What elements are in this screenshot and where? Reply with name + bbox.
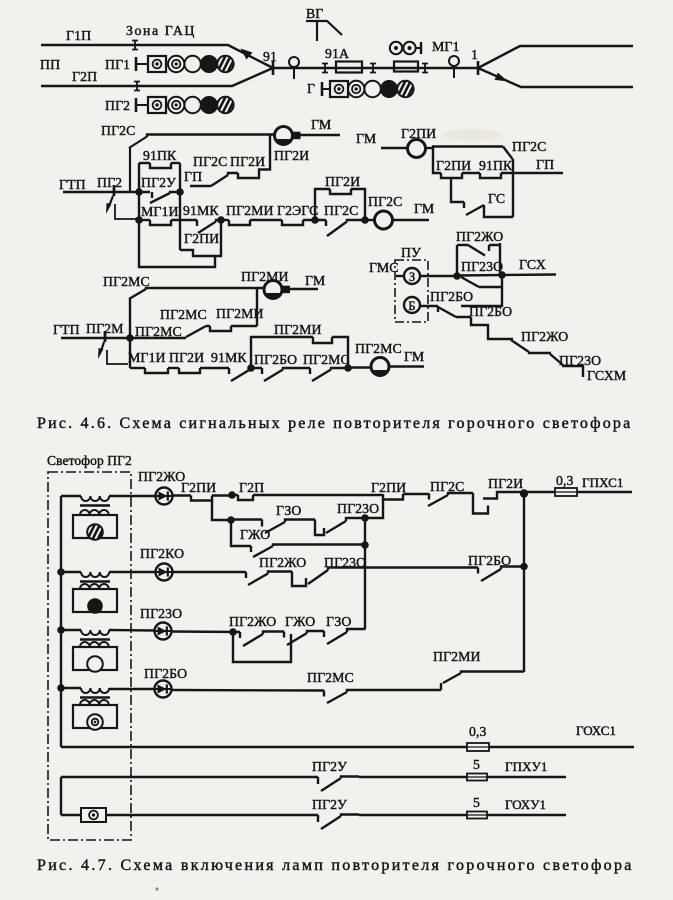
svg-text:ГМ: ГМ [305, 273, 325, 288]
wire row2 [109, 571, 156, 573]
vertical М to bottom row [129, 338, 131, 368]
main hump track line [273, 67, 478, 69]
wire link from ПГ2 arrow to lower bus [115, 204, 137, 219]
contact ПГ23О [292, 568, 478, 587]
contact ПГ2ЖО [246, 572, 292, 586]
lamp unit green [73, 647, 117, 670]
signal ПГ1 base box [148, 56, 166, 72]
signal mast 91 [289, 57, 299, 67]
svg-text:ГМ: ГМ [356, 131, 376, 146]
svg-text:ГПХУ1: ГПХУ1 [505, 759, 548, 774]
wire relay ПГ2МС to ГМ [390, 365, 425, 367]
contact ПГ2БО [251, 368, 305, 381]
contact ПГ2ЖО [240, 632, 284, 647]
lamp unit yellow [73, 515, 117, 538]
wire link ПГ2М to bottom row [107, 350, 128, 364]
svg-text:ПУ: ПУ [401, 245, 421, 260]
track line 1 (upper approach) [41, 45, 273, 68]
contact ПГ2У [318, 777, 359, 792]
bypass loop wire [139, 220, 215, 267]
wire [173, 494, 192, 496]
relay Г2ПИ [408, 140, 426, 158]
riser and contact ПГ2МС [129, 289, 146, 338]
contact ПГ2МС [305, 368, 348, 381]
svg-text:ВГ: ВГ [306, 6, 323, 21]
svg-text:ПГ23О: ПГ23О [461, 259, 503, 274]
node [520, 563, 528, 571]
svg-text:ПГ2И: ПГ2И [325, 174, 360, 189]
relay ПГ2МС [371, 358, 389, 376]
wire [172, 689, 325, 692]
branch Г2ПИ [180, 220, 221, 256]
insulated joint on line 1 [132, 41, 138, 50]
left link [60, 777, 62, 815]
wire row3 [109, 629, 155, 632]
button Б [404, 297, 420, 313]
svg-text:ГМ: ГМ [414, 201, 434, 216]
box right leg [179, 163, 181, 250]
svg-text:ГОХС1: ГОХС1 [576, 723, 616, 738]
svg-text:5: 5 [473, 795, 480, 810]
junction bar 91 [272, 61, 275, 75]
signal Г base box [330, 81, 348, 97]
return wire to ГОХС1 [61, 746, 467, 748]
upper М bus [146, 288, 263, 289]
contact ПГ2И [179, 368, 200, 373]
wire ГТП feed [63, 191, 139, 193]
wire [359, 776, 467, 778]
contact 91МК [197, 220, 221, 233]
svg-text:ГЖО: ГЖО [285, 614, 315, 629]
signal Г head [348, 81, 364, 97]
contact ГЖО [284, 631, 324, 645]
svg-text:Г2ПИ: Г2ПИ [181, 480, 216, 495]
wire to relay ПГ2С [365, 219, 374, 221]
svg-text:ПГ2С: ПГ2С [430, 479, 464, 494]
svg-text:ГП: ГП [184, 169, 202, 184]
svg-text:ПГ2МС: ПГ2МС [303, 352, 350, 367]
track section box 2 [394, 62, 418, 72]
svg-text:Г2ПИ: Г2ПИ [436, 158, 471, 173]
rung ПГ2ЖО [457, 245, 500, 256]
svg-text:ПГ2ЖО: ПГ2ЖО [521, 329, 568, 344]
contact ПГ2БО [438, 306, 471, 317]
svg-text:1: 1 [471, 47, 478, 62]
svg-text:ПГ2БО: ПГ2БО [469, 304, 512, 319]
lamp box on ГОХУ1 row [81, 808, 106, 822]
svg-text:Г2ЭГС: Г2ЭГС [277, 203, 318, 218]
svg-text:ПГ2И: ПГ2И [230, 154, 265, 169]
svg-text:ПГ2КО: ПГ2КО [140, 546, 184, 561]
branch ГЖО [231, 520, 365, 557]
signal ПГ2 head [168, 97, 184, 113]
insulated joint [370, 64, 376, 73]
dash-dot box ПУ [395, 260, 428, 322]
contact ПГ2МИ row B [210, 326, 231, 331]
svg-text:ПГ2: ПГ2 [105, 98, 130, 113]
node [453, 272, 461, 280]
svg-text:ГЖО: ГЖО [240, 527, 270, 542]
svg-text:ПГ2БО: ПГ2БО [254, 352, 297, 367]
wire [173, 571, 247, 573]
contact МГ1И [139, 219, 150, 221]
wire ГМ to relay Г2ПИ [381, 147, 408, 149]
junction bar 1 [477, 61, 480, 75]
wire relay ПГ2МИ to ГМ [287, 288, 319, 290]
lamp unit red [73, 589, 117, 612]
contact ПГ2С riser [129, 148, 131, 192]
node left of box [311, 216, 319, 224]
svg-text:ПГ2С: ПГ2С [101, 123, 135, 138]
wire ГОХС1 [489, 746, 634, 748]
signal ПГ1 head [168, 56, 184, 72]
contact ПГ2МС [324, 690, 441, 703]
svg-text:ПГ2ЖО: ПГ2ЖО [259, 555, 306, 570]
svg-text:ПГ2БО: ПГ2БО [144, 666, 187, 681]
fuse 0,3 [555, 488, 577, 496]
contact Г2ПИ right [383, 494, 403, 500]
svg-text:ПГ2ЖО: ПГ2ЖО [456, 229, 503, 244]
arrow on lower diverging track [495, 73, 508, 82]
scan speck [155, 887, 158, 890]
contact ПГ2У [139, 192, 180, 203]
parallel box left leg [456, 245, 458, 276]
svg-text:ПГ2МИ: ПГ2МИ [226, 203, 274, 218]
wire row3 [61, 629, 81, 631]
svg-text:ПП: ПП [40, 57, 60, 72]
svg-text:ПГ2МС: ПГ2МС [103, 274, 150, 289]
middle branch [433, 148, 441, 173]
svg-text:ГМС: ГМС [369, 260, 399, 275]
bus node row3 [57, 626, 65, 634]
wire row4 [109, 688, 155, 690]
svg-text:ГМ: ГМ [311, 117, 331, 132]
wire to relay ПГ2МС [348, 366, 371, 368]
contact ПГ23О [315, 518, 365, 535]
wire relay ПГ2И to ГМ [297, 134, 340, 136]
svg-text:ПГ23О: ПГ23О [559, 353, 601, 368]
wire ГМС to button З [396, 275, 404, 277]
fuse 5 [467, 812, 487, 819]
wire relay ПГ2С to ГМ [393, 219, 430, 221]
svg-text:ГОХУ1: ГОХУ1 [505, 797, 546, 812]
vertical to lower bus [138, 192, 140, 220]
wire row1 [109, 495, 156, 497]
svg-text:ГЗО: ГЗО [326, 614, 352, 629]
МГ1 mast bar [416, 47, 421, 49]
contact ПГ2С on bus [326, 220, 365, 236]
svg-text:Г2ПИ: Г2ПИ [371, 480, 406, 495]
svg-text:ГТП: ГТП [59, 177, 86, 192]
node М [126, 334, 134, 342]
svg-text:Г2П: Г2П [239, 480, 264, 495]
svg-text:МГ1И: МГ1И [141, 204, 179, 219]
relay ПГ2ЖО diode [156, 488, 173, 505]
svg-text:З: З [409, 270, 415, 284]
track line 2 (lower approach) [41, 68, 273, 86]
relay ПГ2С [375, 211, 393, 229]
transformer row1 [81, 496, 109, 501]
svg-text:Зона ГАЦ: Зона ГАЦ [126, 23, 196, 38]
svg-text:91А: 91А [325, 46, 349, 61]
diverging track lower [478, 68, 633, 87]
signal ВГ symbol [306, 21, 342, 41]
svg-text:ПГ2МС: ПГ2МС [355, 341, 402, 356]
node after ПГ2 [135, 188, 143, 196]
svg-text:Рис. 4.7. Схема включения ламп: Рис. 4.7. Схема включения ламп повторите… [37, 857, 634, 874]
signal ПГ1 mast [135, 57, 138, 71]
svg-text:ГСХ: ГСХ [519, 257, 546, 272]
wire [487, 814, 566, 816]
node [498, 271, 506, 279]
svg-text:ПГ2МС: ПГ2МС [135, 324, 182, 339]
wire to fuse [524, 491, 555, 493]
svg-text:91МК: 91МК [211, 350, 247, 365]
wire [231, 518, 262, 520]
node [228, 491, 236, 499]
svg-text:ПГ2ЖО: ПГ2ЖО [229, 614, 276, 629]
node right of box [361, 216, 369, 224]
svg-text:91ПК: 91ПК [479, 158, 513, 173]
wire row4 [61, 687, 81, 689]
signal ПГ2 base box [148, 97, 166, 113]
bus node row2 [57, 568, 65, 576]
svg-text:91ПК: 91ПК [143, 148, 177, 163]
svg-text:Г: Г [307, 81, 315, 96]
wire [487, 776, 566, 778]
dash-dot enclosure Светофор ПГ2 [48, 472, 131, 840]
node on bus [135, 216, 143, 224]
fuse 0,3 [467, 743, 489, 751]
box 91ПК-ПГ2У left leg [138, 163, 140, 192]
wire to ГСХ [457, 275, 556, 276]
contact 91ПК [480, 173, 501, 178]
svg-text:ПГ2МИ: ПГ2МИ [274, 322, 322, 337]
signal ПГ2 mast [135, 98, 138, 112]
insulated joint on line 2 [134, 82, 140, 91]
riser to relay ПГ2И [259, 135, 270, 173]
ГС loop [451, 178, 513, 217]
relay ПГ2БО diode [155, 681, 172, 698]
svg-text:Г2П: Г2П [72, 69, 97, 84]
svg-text:ПГ2С: ПГ2С [193, 154, 227, 169]
node [229, 628, 237, 636]
svg-text:Г2ПИ: Г2ПИ [184, 231, 219, 246]
lamp unit white [73, 705, 117, 728]
wire row2 [61, 571, 81, 573]
bottom row wire [130, 367, 145, 369]
diverging track upper [478, 46, 633, 68]
svg-text:0,3: 0,3 [469, 724, 487, 739]
node box left [247, 364, 255, 372]
svg-text:ПГ2И: ПГ2И [274, 148, 309, 163]
contact Г2ПИ [441, 173, 462, 178]
svg-text:ПГ1: ПГ1 [105, 57, 130, 72]
insulated joint [322, 64, 328, 73]
node box right [344, 364, 352, 372]
transformer row4 [81, 688, 109, 693]
contact МГ1И [145, 368, 168, 373]
svg-text:ПГ2И: ПГ2И [169, 350, 204, 365]
contact ПГ2БО [478, 567, 524, 582]
wire ГОХУ1 row [61, 814, 81, 816]
svg-text:ПГ2БО: ПГ2БО [430, 289, 473, 304]
bypass loop row3 [233, 632, 291, 662]
svg-text:5: 5 [473, 757, 480, 772]
svg-text:ПГ2МИ: ПГ2МИ [241, 269, 289, 284]
svg-text:ПГ2С: ПГ2С [368, 194, 402, 209]
wire relay Г2ПИ right [426, 147, 435, 149]
scan smudge [442, 129, 502, 141]
svg-text:МГ1И: МГ1И [128, 350, 166, 365]
svg-text:Б: Б [408, 299, 415, 313]
relay ПГ2МИ [264, 281, 282, 299]
contact Г2ЭГС [282, 220, 303, 225]
link to Б row [461, 275, 502, 306]
svg-text:Рис. 4.6. Схема сигнальных рел: Рис. 4.6. Схема сигнальных реле повторит… [37, 415, 632, 432]
signal Г mast [321, 82, 324, 96]
svg-text:Г1П: Г1П [66, 28, 91, 43]
parallel box right leg [499, 243, 501, 276]
staircase to ГСХМ [471, 317, 583, 377]
svg-text:ПГ23О: ПГ23О [337, 501, 379, 516]
svg-text:0,3: 0,3 [556, 473, 574, 488]
svg-text:ГМ: ГМ [404, 349, 424, 364]
wire ГПХУ1 row [61, 776, 318, 778]
svg-text:ПГ2МС: ПГ2МС [160, 307, 207, 322]
repeater head МГ1 circles [390, 42, 402, 54]
track section box 1 [336, 62, 362, 73]
node right of ПГ2У [176, 188, 184, 196]
insulated joint [422, 64, 428, 73]
svg-text:ГЗО: ГЗО [276, 503, 302, 518]
row B wire [130, 337, 186, 339]
svg-text:ПГ2И: ПГ2И [488, 476, 523, 491]
svg-text:ПГ2МС: ПГ2МС [307, 670, 354, 685]
upper branch wire [433, 147, 503, 149]
button З [404, 268, 420, 284]
svg-text:91МК: 91МК [183, 203, 219, 218]
wire [359, 814, 467, 816]
wire Б [420, 305, 438, 307]
contact ПГ2 (bar and arrow) [113, 185, 116, 196]
contact ПГ2М (bar and arrow) [104, 331, 107, 342]
svg-text:ГП: ГП [536, 157, 554, 172]
transformer row2 [81, 572, 109, 577]
contact Г2ПИ [191, 496, 212, 501]
contact ПГ2МИ [441, 672, 524, 691]
node [227, 516, 235, 524]
svg-text:ПГ2У: ПГ2У [141, 175, 176, 190]
contact ПГ2С [428, 493, 473, 506]
right common vertical [523, 493, 525, 672]
contact 91МК [229, 368, 251, 381]
jog from Г2ПИ right [365, 500, 383, 519]
wire row1 [61, 495, 81, 497]
svg-text:ПГ2ЖО: ПГ2ЖО [138, 469, 185, 484]
contact ПГ2МС row B [186, 326, 210, 337]
contact ПГ2МИ [221, 219, 229, 221]
contact ГЗО [262, 520, 315, 534]
svg-text:ПГ2У: ПГ2У [312, 797, 347, 812]
contact ПГ2У [318, 815, 359, 830]
node after 91МК [217, 216, 225, 224]
signal mast МГ1 [449, 56, 459, 66]
wire З to parallel box [420, 275, 457, 277]
svg-text:ГСХМ: ГСХМ [587, 368, 626, 383]
fuse 5 [467, 774, 487, 781]
contact ПГ2И pocket [473, 492, 524, 514]
node ПГ2И [520, 489, 528, 497]
wire [106, 814, 318, 816]
wire ГТП М feed [61, 337, 130, 339]
box ПГ2МИ [251, 337, 313, 368]
relay ПГ2И [275, 127, 293, 145]
bus node row4 [57, 684, 65, 692]
svg-text:ПГ2У: ПГ2У [312, 759, 347, 774]
contact ПГ2И notch [238, 173, 259, 178]
branch from Г2ПИ [212, 501, 231, 521]
contact Г2П [232, 494, 238, 496]
rung ПГ23О [461, 277, 502, 287]
svg-text:ГС: ГС [488, 191, 505, 206]
svg-text:91: 91 [263, 49, 277, 64]
node [361, 541, 369, 549]
svg-text:Светофор ПГ2: Светофор ПГ2 [47, 453, 132, 468]
ГП staircase wire [190, 173, 238, 186]
rung 91ПК [139, 162, 150, 164]
svg-text:ПГ2: ПГ2 [97, 175, 122, 190]
relay ПГ2КО diode [156, 564, 173, 581]
wire [172, 630, 241, 633]
transformer row3 [81, 630, 109, 635]
arrow on upper converging track [241, 49, 253, 60]
svg-text:ПГ2С: ПГ2С [324, 203, 358, 218]
svg-text:МГ1: МГ1 [432, 39, 459, 54]
svg-text:ПГ2С: ПГ2С [512, 139, 546, 154]
riser row B to bus [256, 288, 258, 326]
svg-text:ГПХС1: ГПХС1 [582, 475, 623, 490]
svg-text:ПГ2МИ: ПГ2МИ [433, 649, 481, 664]
svg-text:ГТП: ГТП [53, 322, 80, 337]
vertical common leg [512, 159, 514, 217]
left lamp bus [60, 496, 62, 747]
relay ПГ23О diode [155, 623, 172, 640]
contact ПГ2С descending [503, 147, 513, 160]
svg-text:ПГ23О: ПГ23О [140, 606, 182, 621]
wire to relay ПГ2И [147, 135, 274, 138]
wire ГПХС1 [577, 491, 632, 493]
common vertical [364, 518, 366, 629]
node [361, 514, 369, 522]
contact ГЗО [324, 629, 366, 644]
box ПГ2И [315, 189, 330, 220]
